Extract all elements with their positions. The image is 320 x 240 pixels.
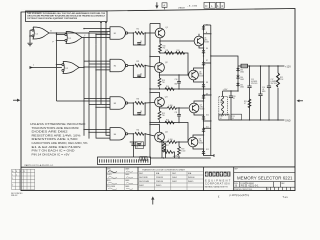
+10V rail (150, 157, 211, 159)
svg-text:R22: R22 (280, 77, 283, 79)
edge connector (98, 157, 151, 165)
svg-text:Q8: Q8 (199, 139, 201, 141)
gate C1 (32, 27, 49, 39)
engineer / date block (106, 167, 138, 191)
capacitor C16 (260, 66, 262, 120)
wire D2 output (79, 67, 84, 69)
diode D8 (202, 83, 205, 88)
bus wire 2 (88, 33, 90, 139)
resistor R2 (135, 64, 144, 67)
bus wire 1 (83, 38, 85, 136)
svg-text:1,500: 1,500 (169, 139, 173, 141)
capacitor C17 (268, 66, 270, 120)
fold arrow (top, pointing down) (155, 2, 158, 9)
revision history table (bottom left) (12, 169, 35, 189)
svg-text:.01: .01 (232, 118, 234, 120)
svg-text:C2: C2 (140, 74, 142, 76)
wire inter-row2 (150, 88, 211, 90)
svg-text:R12: R12 (177, 50, 180, 52)
wire R3 to Q3 (145, 102, 155, 105)
svg-text:DEC3639: DEC3639 (139, 177, 149, 179)
+12V rail (238, 65, 283, 67)
diode D5 (202, 25, 205, 30)
resistor R10 (159, 44, 162, 53)
resistor R16 (165, 121, 174, 124)
svg-text:C11: C11 (175, 112, 178, 114)
capacitor C3 (133, 103, 145, 115)
revision table (top margin) (204, 2, 215, 8)
diode chain vertical (204, 25, 215, 157)
GND rail (219, 119, 283, 121)
title strip top line (21, 166, 295, 168)
wire D1 inputs (57, 35, 65, 41)
capacitor C1 (133, 33, 145, 45)
capacitor C15 (249, 66, 251, 120)
drawing border (21, 9, 295, 191)
svg-text:R10: R10 (163, 45, 166, 47)
svg-text:2N3639: 2N3639 (156, 177, 164, 179)
bus wire 3 (95, 45, 97, 130)
wire E4 inputs (84, 129, 110, 139)
svg-text:2N6534: 2N6534 (156, 181, 164, 183)
resistor R14 (165, 88, 174, 91)
svg-text:680: 680 (175, 84, 178, 86)
capacitor C4 (133, 134, 145, 146)
svg-text:C16: C16 (262, 87, 265, 89)
title cell (234, 167, 295, 191)
svg-text:D6: D6 (206, 48, 208, 50)
svg-text:CIRCUITS ARE PROPRIETARY IN NA: CIRCUITS ARE PROPRIETARY IN NATURE AND S… (27, 15, 106, 18)
junction dots on +12V rail (249, 65, 250, 66)
svg-text:Q7: Q7 (200, 105, 202, 107)
svg-text:6534B: 6534B (200, 109, 205, 111)
svg-text:R14: R14 (166, 86, 169, 88)
junction dots on +10V rail (163, 157, 164, 158)
svg-text:C21: C21 (232, 116, 235, 118)
wire Q4 collector to +10V bus (150, 125, 160, 133)
junction dots on GND rail (249, 119, 250, 120)
svg-text:CHK'D: CHK'D (107, 174, 113, 176)
svg-text:750: 750 (162, 82, 165, 84)
svg-text:PIN 14 ON EACH IC = +5V: PIN 14 ON EACH IC = +5V (32, 153, 70, 156)
capacitor C22 (130, 142, 138, 157)
wire R4 to Q4 (145, 134, 155, 136)
wire Q3 collector to +10V bus (150, 93, 160, 98)
svg-text:R17: R17 (166, 145, 169, 147)
input arrow J (30, 66, 62, 69)
svg-text:GND: GND (285, 119, 291, 122)
diode D13 (237, 66, 239, 91)
svg-text:2: 2 (16, 174, 17, 176)
diode D7 (202, 61, 205, 66)
diode D9 (202, 94, 205, 99)
revision box A (top margin) (162, 3, 167, 10)
proprietary note box (26, 11, 108, 22)
svg-text:D662: D662 (240, 79, 244, 81)
svg-text:D13: D13 (240, 69, 243, 71)
junction (56, 32, 57, 33)
wire bottom jog (57, 100, 111, 102)
fold arrow (bottom, pointing up) (151, 196, 154, 204)
wire E1 out (130, 32, 134, 34)
wire Q1 collector to +10V bus (150, 24, 160, 29)
wire Q4 emitter (160, 141, 189, 143)
transistor Q4 (155, 132, 165, 142)
transistor Q3 (155, 97, 165, 107)
svg-text:Q6: Q6 (199, 72, 201, 74)
resistor R12 (176, 52, 185, 55)
resistor R18 (178, 147, 181, 156)
svg-text:D12: D12 (206, 149, 209, 151)
svg-text:35V 20%: 35V 20% (251, 83, 258, 85)
nand gate E2 (110, 59, 130, 71)
wire Q2 emitter (160, 72, 189, 75)
wire E3 out (130, 102, 134, 104)
resistor R21 (248, 99, 251, 108)
svg-text:C17: C17 (271, 79, 274, 81)
transistor and diode conversion chart (138, 167, 203, 191)
svg-text:- B - 1935: - B - 1935 (188, 5, 198, 7)
svg-text:MEMORY SELECTOR 6221: MEMORY SELECTOR 6221 (237, 175, 293, 180)
transistor Q8 (188, 137, 198, 147)
wire drops to +10V rail (162, 140, 166, 158)
svg-text:D8: D8 (206, 82, 208, 84)
wire inter-row3 (150, 123, 188, 143)
nand gate E4 (110, 128, 130, 140)
svg-text:1: 1 (12, 174, 13, 176)
wire Q1 emitter (160, 38, 194, 41)
svg-text:COPYRIGHT 1969 BY DIGITAL EQUI: COPYRIGHT 1969 BY DIGITAL EQUIPMENT CORP… (27, 17, 77, 20)
resistor R4 (135, 132, 144, 135)
wire down from C1 output (56, 33, 58, 101)
junction nodes on bus (88, 32, 89, 33)
svg-text:IN645: IN645 (156, 185, 162, 187)
diode D11 (202, 127, 205, 132)
svg-text:47: 47 (244, 103, 246, 105)
svg-text:750: 750 (163, 48, 166, 50)
wire E3 inputs (84, 99, 110, 108)
svg-text:DEC FORM NO: DEC FORM NO (11, 193, 23, 195)
svg-text:C19: C19 (220, 116, 223, 118)
svg-text:UNLESS OTHERWISE INDICATED:: UNLESS OTHERWISE INDICATED: (30, 123, 86, 126)
svg-text:DEC6534B: DEC6534B (139, 181, 150, 183)
svg-text:R15: R15 (162, 113, 165, 115)
svg-text:IN645: IN645 (188, 181, 194, 183)
wire Q3 emitter (160, 107, 189, 108)
wire C1 inputs (30, 30, 32, 43)
gate D1 (65, 32, 82, 44)
capacitor C20 (230, 91, 232, 120)
svg-text:D10: D10 (206, 114, 209, 116)
capacitor C19 box (219, 114, 229, 120)
resistor R15 (158, 111, 161, 120)
wire right riser (211, 25, 238, 156)
svg-text:D7: D7 (206, 60, 208, 62)
svg-text:R21: R21 (244, 101, 247, 103)
svg-text:L1: L1 (220, 100, 222, 102)
svg-text:D662: D662 (240, 86, 244, 88)
wire E2 out (130, 65, 134, 67)
nand gate E1 (110, 27, 130, 39)
wire inter-row (160, 53, 188, 75)
svg-text:DIODES ARE D662: DIODES ARE D662 (32, 131, 69, 134)
svg-text:RESISTORS ARE 1/4W; 10%: RESISTORS ARE 1/4W; 10% (32, 134, 82, 137)
diode D12 (202, 150, 205, 155)
svg-text:D662: D662 (240, 71, 244, 73)
svg-text:+15V: +15V (223, 89, 228, 91)
svg-text:1,500: 1,500 (169, 105, 173, 107)
svg-text:D11: D11 (206, 127, 209, 129)
capacitor C10 (178, 78, 180, 87)
wire jog row1 (84, 29, 110, 45)
svg-text:6534B: 6534B (204, 42, 209, 44)
svg-text:p.107(c)+|+|17|¼|: p.107(c)+|+|17|¼| (230, 194, 250, 197)
wire C1 output to bus (49, 32, 108, 34)
svg-text:C22: C22 (136, 144, 139, 146)
svg-text:750: 750 (162, 115, 165, 117)
svg-text:+10V: +10V (173, 155, 179, 158)
wire R1 to Q1 (145, 32, 155, 34)
svg-text:C3: C3 (140, 111, 142, 113)
diode D14 (236, 74, 239, 79)
svg-text:D15: D15 (240, 84, 243, 86)
nand gate E3 (110, 97, 130, 109)
wire D2 input upper (57, 64, 62, 66)
svg-text:PARTS LIST D-A-PL6221-0-1: PARTS LIST D-A-PL6221-0-1 (25, 164, 55, 167)
gate D2 (62, 62, 79, 74)
diode D10 (202, 115, 205, 120)
node at C1 input (29, 35, 31, 37)
DEC logo cell (203, 167, 231, 191)
svg-text:R16: R16 (166, 119, 169, 121)
transistor Q5 (194, 36, 204, 46)
svg-text:.01: .01 (262, 89, 264, 91)
svg-text:Q5: Q5 (204, 38, 206, 40)
svg-text:35V 20%: 35V 20% (271, 83, 278, 85)
svg-text:R18: R18 (181, 149, 184, 151)
svg-text:6.8 MFD: 6.8 MFD (251, 81, 258, 83)
svg-text:IN3606: IN3606 (188, 177, 195, 179)
wire D1 output (82, 37, 84, 39)
svg-text:B: B (16, 171, 17, 173)
resistor R1 (135, 32, 144, 35)
transistor Q1 (155, 28, 165, 38)
svg-text:C1: C1 (140, 41, 142, 43)
+10V bus vertical (149, 24, 151, 159)
svg-text:R11: R11 (166, 50, 169, 52)
inductor L1 (219, 96, 228, 115)
svg-text:6534B: 6534B (199, 76, 204, 78)
fold arrow (left, pointing right) (13, 99, 20, 102)
transistor Q7 (189, 103, 199, 113)
svg-text:5: 5 (12, 178, 13, 180)
wire R2 to Q2 (145, 66, 155, 68)
svg-text:TRANSISTOR & DIODE CONVERSION: TRANSISTOR & DIODE CONVERSION CHART (142, 168, 186, 171)
svg-text:6534B: 6534B (199, 143, 204, 145)
transistor Q6 (189, 70, 199, 80)
svg-text:.01: .01 (220, 118, 222, 120)
fold arrow (right, pointing left) (297, 99, 303, 102)
svg-text:REF: REF (235, 169, 238, 171)
capacitor C2 (133, 66, 145, 78)
node A (204, 33, 211, 35)
svg-text:DEC: DEC (139, 173, 144, 175)
+12V label (283, 65, 284, 67)
svg-text:T-un.: T-un. (283, 196, 289, 199)
svg-text:D9: D9 (206, 93, 208, 95)
transistor Q2 (155, 63, 165, 73)
svg-text:C10: C10 (175, 79, 178, 81)
terminal marks (140, 157, 147, 161)
svg-text:A: A (163, 4, 165, 8)
bus wire 4 (100, 22, 102, 105)
svg-text:C20: C20 (233, 96, 236, 98)
svg-text:TRANSISTORS ARE DEC3639: TRANSISTORS ARE DEC3639 (32, 127, 80, 130)
resistor R17 (162, 143, 165, 152)
capacitor C21 box (231, 114, 242, 120)
stub tick marks (100, 22, 102, 23)
svg-text:+12V: +12V (285, 65, 291, 68)
svg-text:DEC: DEC (172, 173, 177, 175)
resistor R3 (135, 102, 144, 105)
resistor R13 (158, 78, 161, 87)
svg-text:CAPACITORS ARE MMFD, DEC-MFD,: CAPACITORS ARE MMFD, DEC-MFD, 5% (32, 142, 89, 145)
svg-text:PRINTED CIRCUIT REV.: PRINTED CIRCUIT REV. (234, 189, 253, 191)
wire Q2 collector to +10V bus (150, 57, 160, 63)
svg-text:.01: .01 (233, 98, 235, 100)
svg-text:D14: D14 (240, 77, 243, 79)
capacitor C11 (178, 111, 180, 120)
resistor R11 (165, 52, 174, 55)
svg-text:J: J (33, 65, 34, 67)
svg-text:C15: C15 (251, 79, 254, 81)
svg-text:0: 0 (12, 185, 13, 187)
ground (27, 43, 32, 46)
resistor R20 in rail (241, 64, 248, 68)
svg-text:THIS SCHEMATIC IS FURNISHED ON: THIS SCHEMATIC IS FURNISHED ONLY FOR TES… (27, 12, 106, 15)
svg-text:E1 & E2 ARE DEC7440N: E1 & E2 ARE DEC7440N (32, 146, 81, 149)
wire E2 inputs (84, 61, 110, 70)
diode D15 (236, 82, 239, 87)
resistor R22 (277, 66, 279, 120)
svg-text:PIN 7 ON EACH IC = GND: PIN 7 ON EACH IC = GND (32, 150, 75, 153)
svg-text:RESISTORS ARE 1,500: RESISTORS ARE 1,500 (32, 138, 79, 141)
svg-text:R13: R13 (162, 80, 165, 82)
bus wire 5 (105, 22, 107, 129)
diode D6 (202, 49, 205, 54)
wire E4 out (130, 133, 134, 135)
svg-text:PROJ ENG: PROJ ENG (107, 186, 116, 188)
svg-text:.01: .01 (136, 147, 138, 149)
svg-text:CORPORATION: CORPORATION (205, 183, 230, 186)
svg-text:1,500: 1,500 (181, 151, 185, 153)
wire bias line (223, 90, 238, 92)
